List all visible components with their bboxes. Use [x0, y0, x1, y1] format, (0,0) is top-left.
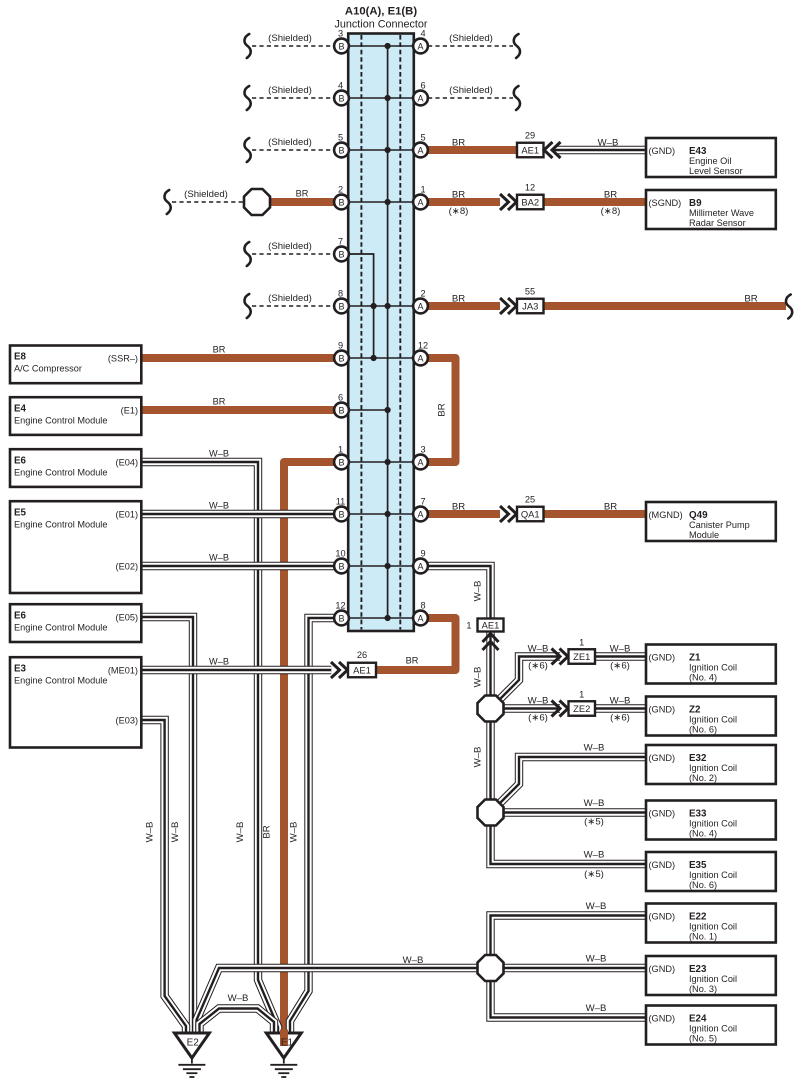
svg-text:(∗8): (∗8) [449, 206, 469, 217]
wire BR E4 E1 to 6B [141, 406, 341, 414]
svg-text:W–B: W–B [598, 138, 619, 149]
svg-text:2: 2 [338, 185, 343, 195]
component E3 Engine Control Module [10, 657, 141, 747]
svg-text:A: A [417, 458, 423, 468]
svg-text:BR: BR [213, 397, 226, 407]
svg-text:W–B: W–B [473, 747, 484, 768]
svg-text:E8: E8 [14, 352, 27, 363]
svg-text:(∗8): (∗8) [601, 206, 621, 217]
svg-text:25: 25 [525, 495, 535, 505]
svg-text:(E02): (E02) [116, 562, 138, 572]
connector internal branch 7B-9B [342, 254, 374, 358]
svg-text:(Shielded): (Shielded) [449, 85, 493, 96]
svg-text:(No. 5): (No. 5) [689, 1034, 717, 1044]
svg-text:ZE1: ZE1 [573, 651, 590, 662]
svg-text:W–B: W–B [228, 993, 249, 1004]
svg-text:B: B [338, 510, 344, 520]
svg-text:3: 3 [338, 29, 343, 39]
svg-text:9: 9 [420, 549, 425, 559]
connector AE1 pin 29 [517, 143, 544, 158]
svg-text:W–B: W–B [584, 798, 605, 809]
wire W-B E3 E03 to ground E2 [141, 720, 186, 1033]
wire W-B ground E2 to ground E1 [200, 1009, 275, 1034]
svg-text:7: 7 [338, 237, 343, 247]
ground symbol E2 [174, 1033, 209, 1077]
svg-text:B: B [338, 198, 344, 208]
wire BR 2A to connector JA3 [421, 302, 501, 310]
pin 10B [334, 549, 349, 574]
svg-text:W–B: W–B [584, 850, 605, 861]
pin 11B [334, 497, 349, 522]
svg-text:W–B: W–B [586, 1003, 607, 1014]
svg-text:B: B [338, 458, 344, 468]
svg-text:(No. 3): (No. 3) [689, 984, 717, 994]
svg-text:Ignition Coil: Ignition Coil [689, 819, 737, 829]
svg-text:W–B: W–B [473, 667, 484, 688]
svg-text:W–B: W–B [209, 501, 229, 511]
octagon junction 3 [478, 955, 504, 981]
svg-text:B: B [338, 354, 344, 364]
svg-text:W–B: W–B [209, 449, 229, 459]
svg-text:(No. 6): (No. 6) [689, 725, 717, 735]
shielded wire with shield octagon at 2B [172, 201, 245, 203]
wire W-B E5 E01 to 11B [141, 510, 341, 518]
svg-text:Engine Control Module: Engine Control Module [14, 416, 107, 426]
svg-text:Engine Control Module: Engine Control Module [14, 623, 107, 633]
svg-text:4: 4 [420, 29, 425, 39]
svg-text:E6: E6 [14, 611, 27, 622]
svg-text:Engine Control Module: Engine Control Module [14, 468, 107, 478]
svg-text:W–B: W–B [584, 743, 605, 754]
component E4 Engine Control Module [10, 397, 141, 435]
svg-text:BR: BR [604, 502, 617, 513]
connector ZE2 pin 1 [552, 701, 569, 717]
connector QA1 pin 25 [500, 506, 517, 522]
wire W-B E5 E02 to 10B [141, 562, 341, 570]
shielded wire right of pin row y=98 [428, 97, 513, 99]
wire BR connector QA1 to Q49 [544, 510, 647, 518]
component E32 Ignition Coil No.2 [646, 745, 776, 784]
svg-text:A: A [417, 562, 423, 572]
svg-text:(GND): (GND) [649, 704, 676, 714]
svg-text:W–B: W–B [473, 581, 484, 602]
svg-text:BA2: BA2 [521, 197, 539, 208]
svg-text:W–B: W–B [145, 822, 156, 843]
shielded wire left of pin row y=46 [252, 45, 334, 47]
svg-text:12: 12 [525, 183, 535, 193]
svg-text:(Shielded): (Shielded) [268, 293, 312, 304]
svg-text:Ignition Coil: Ignition Coil [689, 663, 737, 673]
svg-text:E1: E1 [281, 1038, 294, 1049]
pin 1A [413, 185, 428, 210]
svg-text:BR: BR [296, 189, 309, 199]
svg-text:W–B: W–B [209, 657, 229, 667]
svg-text:1: 1 [579, 689, 584, 699]
pin 2A [413, 289, 428, 314]
wire W-B 9A down to octagon junction 1 [421, 566, 491, 696]
wire W-B octagon 3 to E22 [491, 916, 647, 956]
wire W-B E3 ME01 to connector AE1-26 [141, 666, 331, 674]
svg-text:BR: BR [604, 190, 617, 201]
svg-text:(GND): (GND) [649, 652, 676, 662]
wire W-B octagon 2 to E33 [504, 808, 647, 816]
svg-text:A: A [417, 146, 423, 156]
pin 6B [334, 393, 349, 418]
component E6 Engine Control Module (E05) [10, 604, 141, 642]
svg-text:(GND): (GND) [649, 808, 676, 818]
svg-text:(GND): (GND) [649, 1013, 676, 1023]
svg-text:Radar Sensor: Radar Sensor [689, 218, 746, 228]
shielded wire left of pin row y=306 [252, 305, 334, 307]
svg-text:A: A [417, 614, 423, 624]
svg-text:A: A [417, 302, 423, 312]
svg-text:AE1: AE1 [482, 620, 500, 631]
svg-text:A10(A), E1(B): A10(A), E1(B) [345, 6, 417, 18]
svg-text:(E05): (E05) [116, 613, 138, 623]
component E23 Ignition Coil No.3 [646, 956, 776, 995]
svg-text:1: 1 [466, 621, 471, 631]
svg-text:(GND): (GND) [649, 860, 676, 870]
wire W-B connector AE1-29 to E43 [554, 146, 646, 154]
component Z1 Ignition Coil No.4 [646, 645, 776, 684]
svg-text:(GND): (GND) [649, 753, 676, 763]
svg-text:Ignition Coil: Ignition Coil [689, 763, 737, 773]
svg-text:(SGND): (SGND) [649, 198, 682, 208]
connector ZE1 pin 1 [552, 649, 569, 665]
wire BR loop 12A to 3A [421, 358, 456, 462]
svg-text:(E04): (E04) [116, 458, 138, 468]
svg-text:A: A [417, 42, 423, 52]
svg-text:5: 5 [338, 133, 343, 143]
wire W-B connector ZE2 to Z2 [595, 704, 646, 712]
component Q49 Canister Pump Module [646, 502, 776, 541]
svg-text:A: A [417, 510, 423, 520]
svg-text:2: 2 [420, 289, 425, 299]
svg-text:9: 9 [338, 341, 343, 351]
svg-text:W–B: W–B [289, 822, 300, 843]
svg-text:W–B: W–B [610, 696, 631, 707]
pin 5B [334, 133, 349, 158]
pin 12A [413, 341, 428, 366]
svg-text:(No. 1): (No. 1) [689, 932, 717, 942]
svg-text:A: A [417, 198, 423, 208]
octagon junction 1 [478, 696, 504, 722]
pin 2B [334, 185, 349, 210]
svg-text:Module: Module [689, 530, 719, 540]
svg-text:(Shielded): (Shielded) [184, 189, 228, 200]
svg-text:(GND): (GND) [649, 911, 676, 921]
wire BR connector BA2 to B9 [544, 198, 647, 206]
pin 1B [334, 445, 349, 470]
svg-text:(Shielded): (Shielded) [449, 33, 493, 44]
svg-text:(GND): (GND) [649, 964, 676, 974]
svg-text:Engine Control Module: Engine Control Module [14, 676, 107, 686]
wire W-B octagon 1 to octagon 2 [486, 722, 494, 800]
svg-text:BR: BR [744, 294, 757, 305]
svg-text:Ignition Coil: Ignition Coil [689, 922, 737, 932]
wire BR connector JA3 off page right [544, 302, 787, 310]
wire W-B 12B to ground E1 [290, 618, 342, 1033]
connector AE1 pin 1 [478, 619, 504, 632]
component E22 Ignition Coil No.1 [646, 904, 776, 943]
pin 7A [413, 497, 428, 522]
svg-text:55: 55 [525, 287, 535, 297]
svg-text:E5: E5 [14, 508, 27, 519]
svg-text:12: 12 [335, 601, 345, 611]
svg-text:Canister Pump: Canister Pump [689, 520, 750, 530]
wire BR 1A to connector BA2 [421, 198, 501, 206]
svg-text:B: B [338, 562, 344, 572]
svg-text:BR: BR [452, 190, 465, 201]
connector junction dots [371, 43, 391, 621]
svg-text:1: 1 [338, 445, 343, 455]
svg-text:W–B: W–B [170, 822, 181, 843]
wire W-B octagon 1 to connector ZE1 [500, 657, 560, 700]
shielded wire left of pin row y=150 [252, 149, 334, 151]
svg-text:BR: BR [406, 656, 419, 666]
svg-text:(Shielded): (Shielded) [268, 137, 312, 148]
svg-text:10: 10 [335, 549, 345, 559]
svg-text:JA3: JA3 [522, 301, 538, 312]
pin 4B [334, 81, 349, 106]
svg-text:Ignition Coil: Ignition Coil [689, 974, 737, 984]
component E33 Ignition Coil No.4 [646, 801, 776, 840]
svg-text:(Shielded): (Shielded) [268, 241, 312, 252]
svg-text:(∗6): (∗6) [528, 713, 548, 724]
svg-text:W–B: W–B [403, 955, 424, 966]
shield octagon node [244, 189, 270, 215]
svg-text:AE1: AE1 [353, 665, 371, 676]
svg-text:26: 26 [357, 650, 367, 660]
svg-text:B: B [338, 614, 344, 624]
svg-text:6: 6 [420, 81, 425, 91]
svg-text:AE1: AE1 [521, 145, 539, 156]
svg-text:BR: BR [452, 138, 465, 149]
svg-text:E3: E3 [14, 664, 27, 675]
connector internal bus line [387, 46, 389, 618]
svg-text:11: 11 [336, 497, 346, 507]
svg-text:A: A [417, 94, 423, 104]
svg-text:(No. 2): (No. 2) [689, 773, 717, 783]
connector AE1 pin 26 [331, 662, 348, 678]
junction connector A10(A)/E1(B) body [348, 34, 414, 632]
svg-text:BR: BR [452, 502, 465, 513]
shielded wire left of pin row y=254 [252, 253, 334, 255]
svg-text:6: 6 [338, 393, 343, 403]
component B9 Millimeter Wave Radar Sensor [646, 190, 776, 229]
pin 5A [413, 133, 428, 158]
wire BR 8A to connector AE1-26 [376, 618, 456, 670]
svg-text:(∗5): (∗5) [584, 817, 604, 828]
pin 12B [334, 601, 349, 626]
svg-text:BR: BR [452, 294, 465, 305]
connector BA2 pin 12 [500, 194, 517, 210]
svg-text:(No. 4): (No. 4) [689, 673, 717, 683]
svg-text:(No. 4): (No. 4) [689, 829, 717, 839]
wire BR E8 SSR- to 9B [141, 354, 341, 362]
svg-text:(E03): (E03) [116, 716, 138, 726]
connector JA3 pin 55 [500, 298, 517, 314]
component E43 Engine Oil Level Sensor [646, 138, 776, 177]
junction connector internal dashed line left [360, 35, 362, 630]
svg-text:E4: E4 [14, 404, 27, 415]
svg-text:BR: BR [213, 345, 226, 355]
junction connector internal dashed line right [399, 35, 401, 630]
wire W-B E6 E05 to ground E2 [141, 617, 193, 1033]
pin 9B [334, 341, 349, 366]
svg-text:B: B [338, 42, 344, 52]
wire W-B connector ZE1 to Z1 [595, 652, 646, 660]
shielded wire left of pin row y=98 [252, 97, 334, 99]
svg-text:W–B: W–B [586, 954, 607, 965]
svg-text:(∗5): (∗5) [584, 869, 604, 880]
svg-text:B: B [338, 94, 344, 104]
svg-text:Ignition Coil: Ignition Coil [689, 1024, 737, 1034]
component E6 Engine Control Module [10, 449, 141, 487]
octagon junction 2 [478, 800, 504, 826]
component E8 A/C Compressor [10, 346, 141, 384]
wire W-B octagon 2 to E32 [500, 757, 646, 803]
svg-text:1: 1 [420, 185, 425, 195]
svg-text:W–B: W–B [610, 644, 631, 655]
wire W-B octagon 3 to E24 [491, 981, 647, 1018]
pin 9A [413, 549, 428, 574]
pin 7B [334, 237, 349, 262]
svg-text:1: 1 [579, 637, 584, 647]
wire W-B E6 E04 to ground E1 [141, 462, 278, 1033]
component E5 Engine Control Module [10, 501, 141, 593]
svg-text:Junction Connector: Junction Connector [334, 19, 427, 31]
pin 3B [334, 29, 349, 54]
pin 8B [334, 289, 349, 314]
svg-text:B: B [338, 146, 344, 156]
svg-text:ZE2: ZE2 [573, 703, 590, 714]
svg-text:Level Sensor: Level Sensor [689, 166, 743, 176]
shielded wire right of pin row y=46 [428, 45, 513, 47]
svg-text:8: 8 [338, 289, 343, 299]
svg-text:(No. 6): (No. 6) [689, 880, 717, 890]
svg-text:(∗6): (∗6) [610, 661, 630, 672]
svg-text:W–B: W–B [586, 901, 607, 912]
svg-text:(ME01): (ME01) [108, 666, 138, 676]
pin 6A [413, 81, 428, 106]
component Z2 Ignition Coil No.6 [646, 697, 776, 736]
connector internal row wires [342, 46, 421, 618]
svg-text:W–B: W–B [235, 822, 246, 843]
svg-text:(GND): (GND) [649, 146, 676, 156]
svg-text:A/C Compressor: A/C Compressor [14, 364, 82, 374]
svg-text:12: 12 [418, 341, 428, 351]
svg-text:Ignition Coil: Ignition Coil [689, 715, 737, 725]
svg-text:B: B [338, 302, 344, 312]
svg-text:3: 3 [420, 445, 425, 455]
svg-text:(∗6): (∗6) [610, 713, 630, 724]
svg-text:Engine Oil: Engine Oil [689, 156, 731, 166]
pin 3A [413, 445, 428, 470]
svg-text:Millimeter Wave: Millimeter Wave [689, 208, 754, 218]
svg-text:B: B [338, 250, 344, 260]
svg-text:W–B: W–B [528, 696, 549, 707]
wire W-B octagon junction to ground E2 [197, 968, 478, 1033]
svg-text:29: 29 [525, 131, 535, 141]
wire BR 5A to connector AE1-29 [421, 146, 518, 154]
component E35 Ignition Coil No.6 [646, 852, 776, 891]
pin 8A [413, 601, 428, 626]
svg-text:E2: E2 [187, 1038, 200, 1049]
wire BR shield-octagon to 2B [268, 198, 342, 206]
svg-text:(MGND): (MGND) [649, 510, 683, 520]
svg-text:QA1: QA1 [521, 509, 540, 520]
pin 4A [413, 29, 428, 54]
svg-text:(∗6): (∗6) [528, 661, 548, 672]
svg-text:A: A [417, 354, 423, 364]
wire W-B octagon 2 to E35 [491, 826, 647, 865]
svg-text:4: 4 [338, 81, 343, 91]
svg-text:W–B: W–B [209, 553, 229, 563]
svg-text:(SSR–): (SSR–) [108, 354, 138, 364]
wire BR 7A to connector QA1 [421, 510, 501, 518]
svg-text:Engine Control Module: Engine Control Module [14, 520, 107, 530]
svg-text:5: 5 [420, 133, 425, 143]
wire BR 1B to ground E1 (vertical) [284, 462, 342, 1046]
wire W-B octagon 3 to E23 [504, 964, 647, 972]
svg-text:(E1): (E1) [121, 406, 138, 416]
svg-text:7: 7 [420, 497, 425, 507]
svg-text:B: B [338, 406, 344, 416]
svg-text:8: 8 [420, 601, 425, 611]
svg-text:BR: BR [262, 825, 273, 838]
svg-text:W–B: W–B [528, 644, 549, 655]
wire W-B octagon 1 to connector ZE2 [504, 704, 561, 712]
svg-text:(Shielded): (Shielded) [268, 33, 312, 44]
component E24 Ignition Coil No.5 [646, 1006, 776, 1045]
svg-text:(Shielded): (Shielded) [268, 85, 312, 96]
svg-text:BR: BR [437, 403, 448, 416]
svg-text:(E01): (E01) [116, 510, 138, 520]
wire BR tail into ground E1 [280, 1030, 288, 1047]
ground symbol E1 [266, 1033, 301, 1077]
svg-text:Ignition Coil: Ignition Coil [689, 870, 737, 880]
svg-text:E6: E6 [14, 456, 27, 467]
